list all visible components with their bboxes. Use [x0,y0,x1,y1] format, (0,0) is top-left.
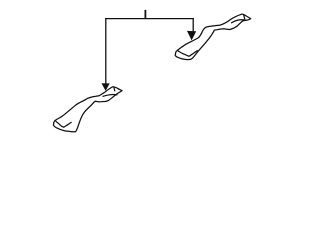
right molding cap crease [244,15,245,19]
left molding chisel crease [56,121,64,127]
leader line to left molding [105,18,107,84]
label 1 tick [144,10,146,19]
left molding outline [54,87,123,132]
right molding end dish crease [232,20,247,23]
right molding chisel crease [178,51,189,56]
callout bracket horizontal line [105,18,194,20]
left molding end dish crease [103,94,117,96]
left molding pod fold line [64,122,71,127]
arrowhead to left molding [102,83,110,91]
left molding cap crease [113,88,116,91]
arrowhead to right molding [187,31,196,41]
right molding outline [175,14,251,59]
right molding pod fold line [189,51,197,57]
leader line to right molding [192,18,194,32]
